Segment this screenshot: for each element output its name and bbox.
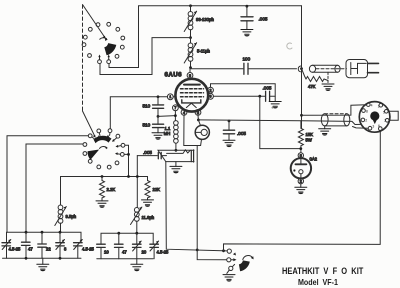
inductor 11.6uh [131,207,142,233]
pin 1 [167,94,175,100]
capacitor 47 (b) [115,233,124,259]
capacitor trimmer 4.5-25 (c) [150,241,159,259]
svg-text:9.5μh: 9.5μh [66,214,77,219]
svg-text:93-130μh: 93-130μh [196,17,214,22]
ground left bank [42,258,44,264]
wire mid tap to S1 contact B [100,38,191,75]
node coil mid tap [189,36,192,39]
mechanical link pointer [83,5,106,138]
wire S2 right contacts to bus [125,145,129,176]
node heater-switch crossing [196,249,199,252]
wire pin3 heater [197,115,199,120]
key jack [158,150,194,162]
function switch wiper [239,260,250,271]
svg-text:510: 510 [143,123,151,128]
node plate junction [189,66,192,69]
node screen junction [258,95,261,98]
tube 6AU6 envelope [175,79,208,112]
left capacitor bank bus [7,232,82,242]
svg-text:5-11μh: 5-11μh [197,49,210,54]
inductor L2 5-11uh variable [184,38,196,68]
pin 4 [181,110,187,116]
svg-text:3: 3 [197,111,199,115]
svg-text:.005: .005 [259,17,268,22]
wire S2 to left bank feed 2 [26,144,83,232]
capacitor .005 key jack [137,152,166,158]
capacitor 510 upper [153,97,164,117]
capacitor 47 (a) [22,232,31,258]
function switch ground contact [227,264,235,273]
capacitor trimmer 4.5-25 (a) [2,240,11,259]
svg-text:15K: 15K [306,132,314,137]
wire shield to ground dashed [327,72,329,82]
speck [272,107,274,109]
octal jumper bracket [389,111,399,120]
svg-text:8: 8 [64,247,67,252]
title Model VF-1 [298,277,338,287]
lamp dial [195,120,209,146]
wire heater line to octal [198,120,361,125]
inductor L1 93-130uh variable [184,6,196,38]
wire B+ vertical line [301,6,303,129]
svg-text:10: 10 [104,250,109,255]
wire resistor bus [61,176,148,178]
wire pin7 cathode [174,111,176,121]
plug AC output [346,60,379,78]
ground screen bypass [269,102,281,109]
svg-text:6: 6 [210,95,212,99]
svg-text:4: 4 [183,111,185,115]
pencil mark C [287,43,292,49]
pin 5 [187,68,193,79]
title HEATHKIT VFO KIT [282,266,363,277]
ground heater shield [324,126,326,129]
wire pin1 grid to S2 [110,97,167,129]
svg-text:20: 20 [142,250,147,255]
middle capacitor bank bus [101,233,153,244]
svg-text:5: 5 [300,154,302,158]
capacitor trimmer 8 [56,232,65,258]
node rail-coil junction [189,4,192,7]
wire coupling cap to output node [249,68,297,70]
wire octal pin to B+ rail right [224,131,381,251]
capacitor 100 coupling [244,63,248,74]
svg-text:22: 22 [46,247,51,252]
svg-text:22K: 22K [153,187,161,192]
resistor 2.2K [100,177,105,201]
inductor RFC 1.1MH cathode choke [174,121,179,126]
wire pin4 heater [184,115,201,145]
node output junction [300,67,303,70]
svg-text:1: 1 [169,95,171,99]
wire choke to jack [175,143,177,150]
svg-text:.005: .005 [143,150,152,155]
ground 0A2 [300,184,302,187]
svg-text:4.5-25: 4.5-25 [157,250,170,255]
svg-text:5: 5 [189,74,191,78]
capacitor 22 [38,232,47,258]
S2 contact arrows [92,133,121,155]
wire jack sleeve down to switch [166,162,227,251]
svg-text:8: 8 [366,110,368,114]
function switch rotation arrow [243,255,253,259]
svg-text:7: 7 [384,119,386,123]
6AU6 grids [181,89,204,97]
resistor 15K 5W [298,121,303,153]
svg-text:3: 3 [372,124,374,128]
ground under top bypass cap [241,30,253,37]
svg-text:6: 6 [378,124,380,128]
resistor 22K [145,177,150,200]
wire heater down to function switch [197,146,226,260]
capacitor .005 heater bypass [223,121,234,140]
wire S2 to left bank feed 1 [7,136,88,233]
wire plate line to coupling cap [191,68,244,70]
tube 0A2 regulator [291,153,311,184]
middle bank bottom bus [97,258,153,260]
svg-text:4.5-25: 4.5-25 [9,247,22,252]
ground heater bypass [223,140,235,147]
svg-text:47K: 47K [308,84,316,89]
ground 22K [142,200,154,207]
svg-text:6AU6: 6AU6 [165,72,183,79]
wire lower conductor into plug [353,127,369,129]
svg-text:0A2: 0A2 [310,157,318,162]
node cathode tap [157,115,160,118]
wire screen dropping line [260,96,301,148]
pin 6 [208,93,214,99]
capacitor .005 screen bypass [266,91,276,101]
left bank bottom bus [3,257,82,259]
svg-text:1: 1 [378,105,380,109]
svg-text:.005: .005 [263,86,272,91]
function switch contact 1 [227,249,236,256]
coax heater shield [321,114,349,126]
wire S1 contact A to rail [109,64,139,68]
capacitor 510 lower [153,116,164,132]
svg-text:100: 100 [243,57,251,62]
6AU6 cathode [182,100,201,103]
node rail-cap junction [246,5,249,8]
svg-text:7: 7 [174,106,176,110]
svg-text:510: 510 [143,104,151,109]
wire b+ to octal [302,105,367,116]
rotary switch S2 [83,129,125,169]
svg-text:4.5-25: 4.5-25 [82,247,95,252]
wire cathode tap [158,115,175,118]
svg-text:47: 47 [122,250,127,255]
function switch contact 2 [227,258,237,262]
svg-text:5: 5 [383,110,385,114]
octal plug P1 [359,102,390,133]
ground key jack [175,162,177,167]
ground output [322,84,334,91]
svg-text:11.6μh: 11.6μh [142,215,155,220]
ground middle bank [136,259,138,265]
wire pin6 screen [213,95,265,97]
svg-text:2.2K: 2.2K [107,187,116,192]
svg-text:4: 4 [371,104,373,108]
svg-text:5W: 5W [306,138,312,143]
pin 2 [208,87,214,93]
node B+ drop junction [222,249,225,252]
pin 3 [195,110,201,116]
capacitor .005 top rail bypass [241,6,253,29]
resistor 47K output [302,69,329,82]
rotary switch S1 [82,22,125,63]
node heater bypass tap [228,120,231,123]
ground 2.2K [96,201,108,208]
svg-text:.005: .005 [237,131,246,136]
node regulator junction [299,147,302,150]
capacitor trimmer 20 [133,233,142,259]
svg-text:2: 2 [300,180,302,184]
wire pin2 suppressor to ground [211,84,276,102]
svg-text:MH: MH [164,131,171,136]
svg-text:47: 47 [28,247,33,252]
svg-text:2: 2 [365,119,367,123]
6AU6 plate [184,84,200,86]
svg-text:2: 2 [210,89,212,93]
capacitor trimmer 4.5-25 (b) [74,240,83,259]
node grid divider junction [157,95,160,98]
ground divider [152,133,164,140]
6AU6 heater [186,103,196,107]
inductor 9.5uh [55,177,67,233]
coax output shield [309,65,346,72]
wire jack cap down to L3 [136,156,138,208]
pin 7 [173,105,179,111]
capacitor 10 [97,244,106,259]
connector male half [298,66,300,72]
wire top rail [139,6,302,68]
node b+ upper tap [300,114,303,117]
